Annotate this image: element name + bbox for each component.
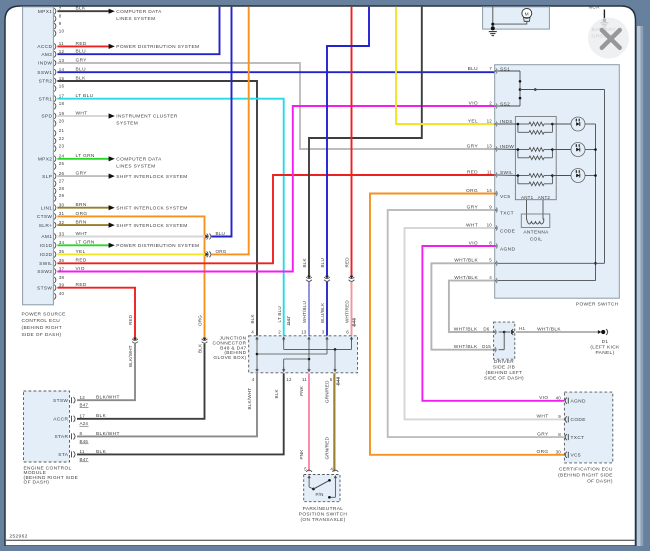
svg-text:LIN1: LIN1 (41, 205, 53, 211)
wire pin 26 to system arrow (57, 175, 109, 177)
svg-text:TXCT: TXCT (500, 211, 514, 217)
svg-text:STAR: STAR (54, 434, 68, 440)
junction pin arrows (256, 337, 258, 341)
resistor pair SWIL (498, 174, 518, 177)
certification ECU box (564, 392, 612, 463)
LED INDS (552, 123, 571, 125)
svg-text:ORG: ORG (198, 315, 203, 326)
svg-text:B47: B47 (80, 457, 89, 462)
svg-text:RED: RED (467, 169, 478, 175)
svg-text:ORG: ORG (216, 249, 227, 254)
svg-text:BLK: BLK (302, 257, 307, 267)
svg-text:BLK: BLK (274, 388, 279, 398)
svg-text:GRY: GRY (467, 143, 479, 149)
antenna coil (527, 219, 544, 225)
wire STR1 pin17 LT BLU down to junction top pin2 (57, 99, 283, 336)
svg-text:POWER DISTRIBUTION SYSTEM: POWER DISTRIBUTION SYSTEM (116, 44, 199, 50)
connector splice WHT/BLU (205, 235, 208, 239)
wire BLU jog from top to junction top pin3 (327, 7, 369, 277)
park/neutral position switch box (304, 475, 340, 502)
svg-text:SSW2: SSW2 (37, 269, 52, 275)
ECU pin brackets and numbers 7-40 (54, 8, 56, 14)
svg-text:5: 5 (489, 258, 492, 263)
svg-text:18: 18 (59, 101, 65, 106)
svg-text:SHIFT INTERLOCK SYSTEM: SHIFT INTERLOCK SYSTEM (116, 174, 187, 180)
svg-text:27: 27 (59, 179, 65, 184)
wire BLK connector down to ECM ACCR (77, 344, 205, 419)
svg-text:CONTROL ECU: CONTROL ECU (22, 318, 61, 324)
svg-text:STR1: STR1 (39, 96, 53, 102)
svg-text:8: 8 (59, 14, 62, 19)
svg-text:SS1: SS1 (500, 66, 510, 72)
LED INDW (552, 149, 571, 151)
svg-text:13: 13 (301, 330, 307, 335)
connector splice BLU/BLUBLK (325, 276, 329, 279)
PN switch internals (308, 480, 310, 487)
wire WHT/RED to junction top pin6 (351, 282, 353, 336)
battery ground symbol (600, 22, 608, 24)
svg-text:(BEHIND LEFT: (BEHIND LEFT (486, 370, 523, 376)
svg-text:GRN/RED: GRN/RED (324, 436, 329, 459)
svg-text:BLK/WHT: BLK/WHT (96, 431, 120, 437)
svg-text:ANT2: ANT2 (538, 195, 551, 200)
svg-text:M: M (525, 11, 529, 17)
junction bus pin2-pin6-pin5 (283, 337, 285, 349)
svg-text:STSW: STSW (53, 398, 68, 404)
diagram bottom border line (6, 539, 635, 541)
svg-text:5: 5 (304, 466, 307, 471)
svg-text:P/N: P/N (315, 492, 323, 497)
connector splice ORG/BLK (203, 338, 207, 341)
svg-text:INDW: INDW (38, 61, 52, 67)
svg-text:GRN/RED: GRN/RED (324, 380, 329, 403)
svg-text:SPD: SPD (41, 114, 52, 120)
svg-text:PARK/NEUTRAL: PARK/NEUTRAL (303, 506, 344, 512)
svg-text:SIDE OF DASH): SIDE OF DASH) (484, 376, 524, 382)
antenna wires (526, 200, 528, 220)
svg-text:4: 4 (251, 330, 254, 335)
svg-text:14: 14 (487, 188, 493, 193)
svg-text:SLP: SLP (42, 174, 52, 180)
svg-text:COIL: COIL (530, 237, 543, 243)
svg-text:(ON TRANSAXLE): (ON TRANSAXLE) (300, 517, 345, 523)
svg-text:23: 23 (59, 143, 65, 148)
wire ORG up to top from IG2D splice (211, 7, 248, 255)
svg-text:25: 25 (59, 161, 65, 166)
SS2 internal wire (498, 105, 520, 107)
svg-text:WHT: WHT (537, 414, 549, 420)
svg-text:AGND: AGND (500, 247, 515, 253)
svg-text:D15: D15 (482, 344, 491, 349)
svg-text:POSITION SWITCH: POSITION SWITCH (299, 511, 348, 517)
wire pin 11 to system arrow (57, 45, 109, 47)
svg-text:BLK/WHT: BLK/WHT (247, 388, 252, 410)
wire AM2 pin12 BLU up to top (57, 7, 219, 54)
svg-text:8: 8 (489, 240, 492, 245)
svg-text:SS2: SS2 (500, 101, 510, 107)
svg-text:SHIFT INTERLOCK SYSTEM: SHIFT INTERLOCK SYSTEM (116, 223, 187, 229)
svg-text:6: 6 (346, 330, 349, 335)
svg-text:32: 32 (59, 220, 65, 225)
wire TXCT GRY down to certification ECU (388, 210, 565, 437)
svg-text:NCA: NCA (589, 5, 601, 11)
svg-text:SLR+: SLR+ (39, 223, 53, 229)
close button X (602, 30, 620, 48)
svg-text:COMPUTER DATA: COMPUTER DATA (116, 157, 162, 163)
svg-text:9: 9 (59, 21, 62, 26)
wire BLU/BLK to junction top pin3 (326, 282, 328, 336)
LED SWIL (552, 175, 571, 177)
svg-text:B48: B48 (351, 317, 356, 326)
svg-text:2: 2 (489, 100, 492, 105)
wire RED from top to junction top pin6 (351, 7, 353, 277)
svg-text:ANT1: ANT1 (521, 195, 534, 200)
svg-text:ORG: ORG (537, 449, 549, 455)
svg-text:(LEFT KICK: (LEFT KICK (590, 344, 620, 350)
svg-text:(BEHIND RIGHT: (BEHIND RIGHT (22, 325, 63, 331)
svg-text:9: 9 (558, 414, 561, 419)
svg-text:STSW: STSW (37, 285, 52, 291)
svg-text:12: 12 (487, 118, 493, 123)
junction connector box (249, 336, 358, 373)
wire CTSW pin31 ORG down to connector (57, 216, 204, 338)
D1 connector (598, 330, 601, 334)
right side light strip (637, 26, 641, 551)
svg-text:30: 30 (556, 450, 562, 455)
svg-text:SIDE J/B: SIDE J/B (493, 365, 515, 371)
svg-text:STR2: STR2 (39, 79, 53, 85)
motor ground (489, 31, 497, 33)
svg-text:B46: B46 (80, 439, 89, 444)
svg-text:VC5: VC5 (571, 453, 581, 459)
svg-text:40: 40 (556, 395, 562, 400)
svg-text:29: 29 (59, 193, 65, 198)
wire SSW1 pin14 BLU to power switch SS1 (57, 71, 494, 73)
svg-text:MPX1: MPX1 (38, 9, 52, 15)
svg-text:COMPUTER DATA: COMPUTER DATA (116, 9, 162, 15)
svg-text:11: 11 (80, 449, 85, 454)
motor symbol M (522, 8, 532, 18)
svg-text:POWER DISTRIBUTION SYSTEM: POWER DISTRIBUTION SYSTEM (116, 243, 199, 249)
svg-text:PNK: PNK (299, 449, 304, 460)
svg-text:IG1D: IG1D (40, 243, 53, 249)
svg-text:10: 10 (487, 222, 493, 227)
svg-text:DRIVER: DRIVER (494, 359, 514, 365)
wire AGND VIO down to certification ECU (422, 246, 564, 401)
battery ground wire (603, 10, 605, 21)
antenna coil box (521, 214, 550, 228)
svg-text:POWER SOURCE: POWER SOURCE (22, 311, 66, 317)
engine control module box (24, 391, 70, 462)
certification ECU pins (565, 398, 567, 404)
svg-text:(BEHIND RIGHT SIDE: (BEHIND RIGHT SIDE (558, 472, 613, 478)
wire junction pin5 GRN/RED to PN switch pin4 (333, 373, 335, 471)
motor box (483, 7, 550, 29)
PN switch pin brackets (306, 470, 312, 472)
motor wires (493, 21, 527, 24)
svg-text:BLK: BLK (250, 313, 255, 323)
wire pin 32 to system arrow (57, 224, 109, 226)
svg-text:LT BLU: LT BLU (277, 306, 282, 322)
switch contact dots (519, 80, 522, 83)
svg-text:OF DASH): OF DASH) (24, 480, 50, 486)
svg-text:A24: A24 (80, 421, 89, 426)
svg-text:B48: B48 (335, 376, 340, 385)
svg-text:20: 20 (59, 118, 65, 123)
svg-text:TXCT: TXCT (571, 435, 585, 441)
svg-text:SHIFT INTERLOCK SYSTEM: SHIFT INTERLOCK SYSTEM (116, 205, 187, 211)
JB D15 pin (493, 348, 496, 351)
svg-text:28: 28 (59, 186, 65, 191)
svg-text:ANTENNA: ANTENNA (523, 230, 549, 236)
svg-text:17: 17 (80, 413, 86, 418)
svg-text:4: 4 (330, 466, 333, 471)
svg-text:3: 3 (322, 330, 325, 335)
wire BLK/WHT connector down to ECM STSW (77, 344, 135, 401)
ECU box - power source control ECU (23, 7, 54, 305)
svg-text:H1: H1 (519, 326, 525, 331)
JB D6 pin (493, 331, 496, 334)
svg-text:CODE: CODE (571, 417, 586, 423)
svg-text:STA: STA (58, 452, 68, 458)
wire SSW2 pin37 VIO to power switch SS2 (57, 106, 494, 272)
svg-text:LINES SYSTEM: LINES SYSTEM (116, 16, 155, 22)
svg-text:BLK/WHT: BLK/WHT (96, 395, 120, 401)
svg-text:22: 22 (59, 136, 65, 141)
wire pin4 WHT/BLK to driver side JB D6 (449, 281, 495, 332)
pin5 internal wire (498, 262, 605, 264)
svg-text:D47: D47 (286, 316, 291, 325)
svg-text:WHT/BLK: WHT/BLK (454, 344, 478, 350)
svg-text:BLU: BLU (320, 258, 325, 268)
wire pin 30 to system arrow (57, 207, 109, 209)
resistor pair INDW (498, 148, 518, 151)
wire BLU up to top from AM1 splice (211, 7, 231, 237)
svg-text:10: 10 (59, 28, 65, 33)
svg-text:BLU/BLK: BLU/BLK (320, 302, 325, 323)
svg-text:SYSTEM: SYSTEM (116, 121, 138, 127)
svg-text:INSTRUMENT CLUSTER: INSTRUMENT CLUSTER (116, 114, 178, 120)
wire CODE WHT down to certification ECU (405, 228, 565, 419)
SS1 internal wire (498, 70, 520, 72)
svg-text:BLK: BLK (96, 413, 107, 419)
svg-text:SWIL: SWIL (39, 261, 52, 267)
wire pin 34 to system arrow (57, 244, 109, 246)
JB right pin H1 (511, 330, 515, 334)
svg-text:BLK: BLK (96, 449, 107, 455)
svg-text:CODE: CODE (500, 229, 515, 235)
svg-text:D1: D1 (602, 339, 609, 345)
wire VC5 ORG down to certification ECU (370, 194, 564, 455)
svg-text:16: 16 (59, 83, 65, 88)
svg-text:BLU: BLU (468, 66, 479, 72)
svg-text:OF DASH): OF DASH) (587, 478, 613, 484)
power switch box (495, 65, 620, 299)
svg-text:ACCR: ACCR (53, 417, 68, 423)
svg-text:VC5: VC5 (500, 194, 510, 200)
svg-text:BLK/WHT: BLK/WHT (128, 345, 133, 367)
wire YEL from top to power switch INDS (396, 7, 495, 124)
svg-text:SIDE OF DASH): SIDE OF DASH) (22, 332, 62, 338)
svg-text:40: 40 (59, 291, 65, 296)
close button circle (588, 18, 629, 59)
svg-text:13: 13 (487, 143, 493, 148)
svg-text:CTSW: CTSW (37, 214, 53, 220)
svg-text:PANEL): PANEL) (595, 350, 614, 356)
power switch pins and names (494, 70, 497, 73)
svg-text:RED: RED (345, 257, 350, 268)
svg-text:7: 7 (489, 66, 492, 71)
svg-text:WHT/BLK: WHT/BLK (537, 326, 561, 332)
svg-text:ACCD: ACCD (37, 44, 52, 50)
svg-text:MPX2: MPX2 (38, 157, 52, 163)
JB internal bus (499, 331, 505, 333)
svg-text:GLOVE BOX): GLOVE BOX) (213, 355, 246, 361)
driver side JB box (494, 322, 515, 359)
svg-text:BLU: BLU (216, 231, 226, 236)
connector splice RED/BLKWHT (133, 338, 137, 341)
svg-text:2: 2 (278, 330, 281, 335)
svg-text:38: 38 (59, 275, 65, 280)
wire pin 24 to system arrow (57, 158, 109, 160)
right bus vertical to pin5 (604, 90, 606, 264)
junction bus pin4-pin3 (256, 337, 258, 371)
wire pin 7 to system arrow (57, 10, 109, 12)
switch vertical SS1-SS2 (519, 71, 521, 106)
connector splice YEL/ORG (205, 253, 208, 257)
svg-text:CERTIFICATION ECU: CERTIFICATION ECU (559, 466, 613, 472)
wire AM1 pin33 WHT to connector (57, 236, 206, 238)
svg-text:WHT/BLU: WHT/BLU (302, 301, 307, 323)
svg-text:4: 4 (489, 275, 492, 280)
svg-text:BLK: BLK (198, 343, 203, 353)
svg-text:252962: 252962 (10, 534, 28, 540)
svg-text:4: 4 (252, 377, 255, 382)
wire IG2D pin35 YEL to connector (57, 253, 206, 255)
svg-text:B47: B47 (80, 403, 89, 408)
svg-text:YEL: YEL (468, 118, 478, 124)
svg-text:GRY: GRY (537, 431, 549, 437)
wire pin5 WHT/BLK to driver side JB D15 (431, 263, 494, 349)
svg-text:12: 12 (286, 377, 292, 382)
svg-text:AM2: AM2 (41, 52, 52, 58)
svg-text:12: 12 (80, 395, 86, 400)
wire junction pin11 PNK to PN switch pin5 (308, 373, 310, 471)
wire SWIL pin36 RED to power switch SWIL (57, 175, 494, 263)
wire STSW pin39 RED down to connector (57, 288, 135, 339)
svg-text:LINES SYSTEM: LINES SYSTEM (116, 163, 155, 169)
svg-text:26: 26 (59, 171, 65, 176)
wire junction pin12 BLK to ECM STA (77, 373, 284, 454)
svg-text:D6: D6 (483, 326, 489, 331)
svg-text:11: 11 (487, 169, 492, 174)
svg-text:IG2D: IG2D (40, 252, 53, 258)
switch bus to right (520, 89, 605, 91)
svg-text:AGND: AGND (571, 398, 586, 404)
svg-text:21: 21 (59, 128, 65, 133)
svg-text:5: 5 (330, 377, 333, 382)
svg-text:PNK: PNK (299, 385, 304, 396)
svg-text:WHT/RED: WHT/RED (345, 300, 350, 323)
connector splice BLK/WHTBLU (307, 276, 311, 279)
svg-text:POWER SWITCH: POWER SWITCH (576, 301, 619, 307)
pin4 internal wire (498, 280, 596, 282)
connector splice RED/WHTRED (350, 276, 354, 279)
wire H1 WHT/BLK to D1 (516, 331, 600, 333)
LED common vertical (595, 124, 597, 281)
wire WHT/BLU to junction top pin13 (308, 282, 310, 336)
svg-text:SSW1: SSW1 (37, 70, 52, 76)
wire pin 19 to system arrow (57, 115, 109, 117)
resistor pair INDS (498, 123, 518, 125)
resistor block box (515, 117, 556, 200)
junction bus pin13-pin12-pin11 (308, 337, 310, 371)
svg-text:8: 8 (558, 432, 561, 437)
svg-text:VIO: VIO (539, 395, 548, 401)
svg-text:9: 9 (489, 204, 492, 209)
svg-text:8: 8 (80, 431, 83, 436)
svg-text:WHT/BLK: WHT/BLK (454, 326, 478, 332)
wire BLK from top to junction top pin13 (309, 7, 422, 277)
svg-text:AM1: AM1 (41, 234, 52, 240)
wire STR2 pin15 BLK down to junction top pin4 (57, 81, 257, 336)
svg-text:11: 11 (302, 377, 307, 382)
wire INDW pin13 GRY to power switch INDW (57, 63, 494, 149)
svg-text:VIO: VIO (469, 100, 478, 106)
wire junction pin4 BLK/WHT to ECM STAR (77, 373, 257, 436)
svg-text:RED: RED (128, 314, 133, 325)
